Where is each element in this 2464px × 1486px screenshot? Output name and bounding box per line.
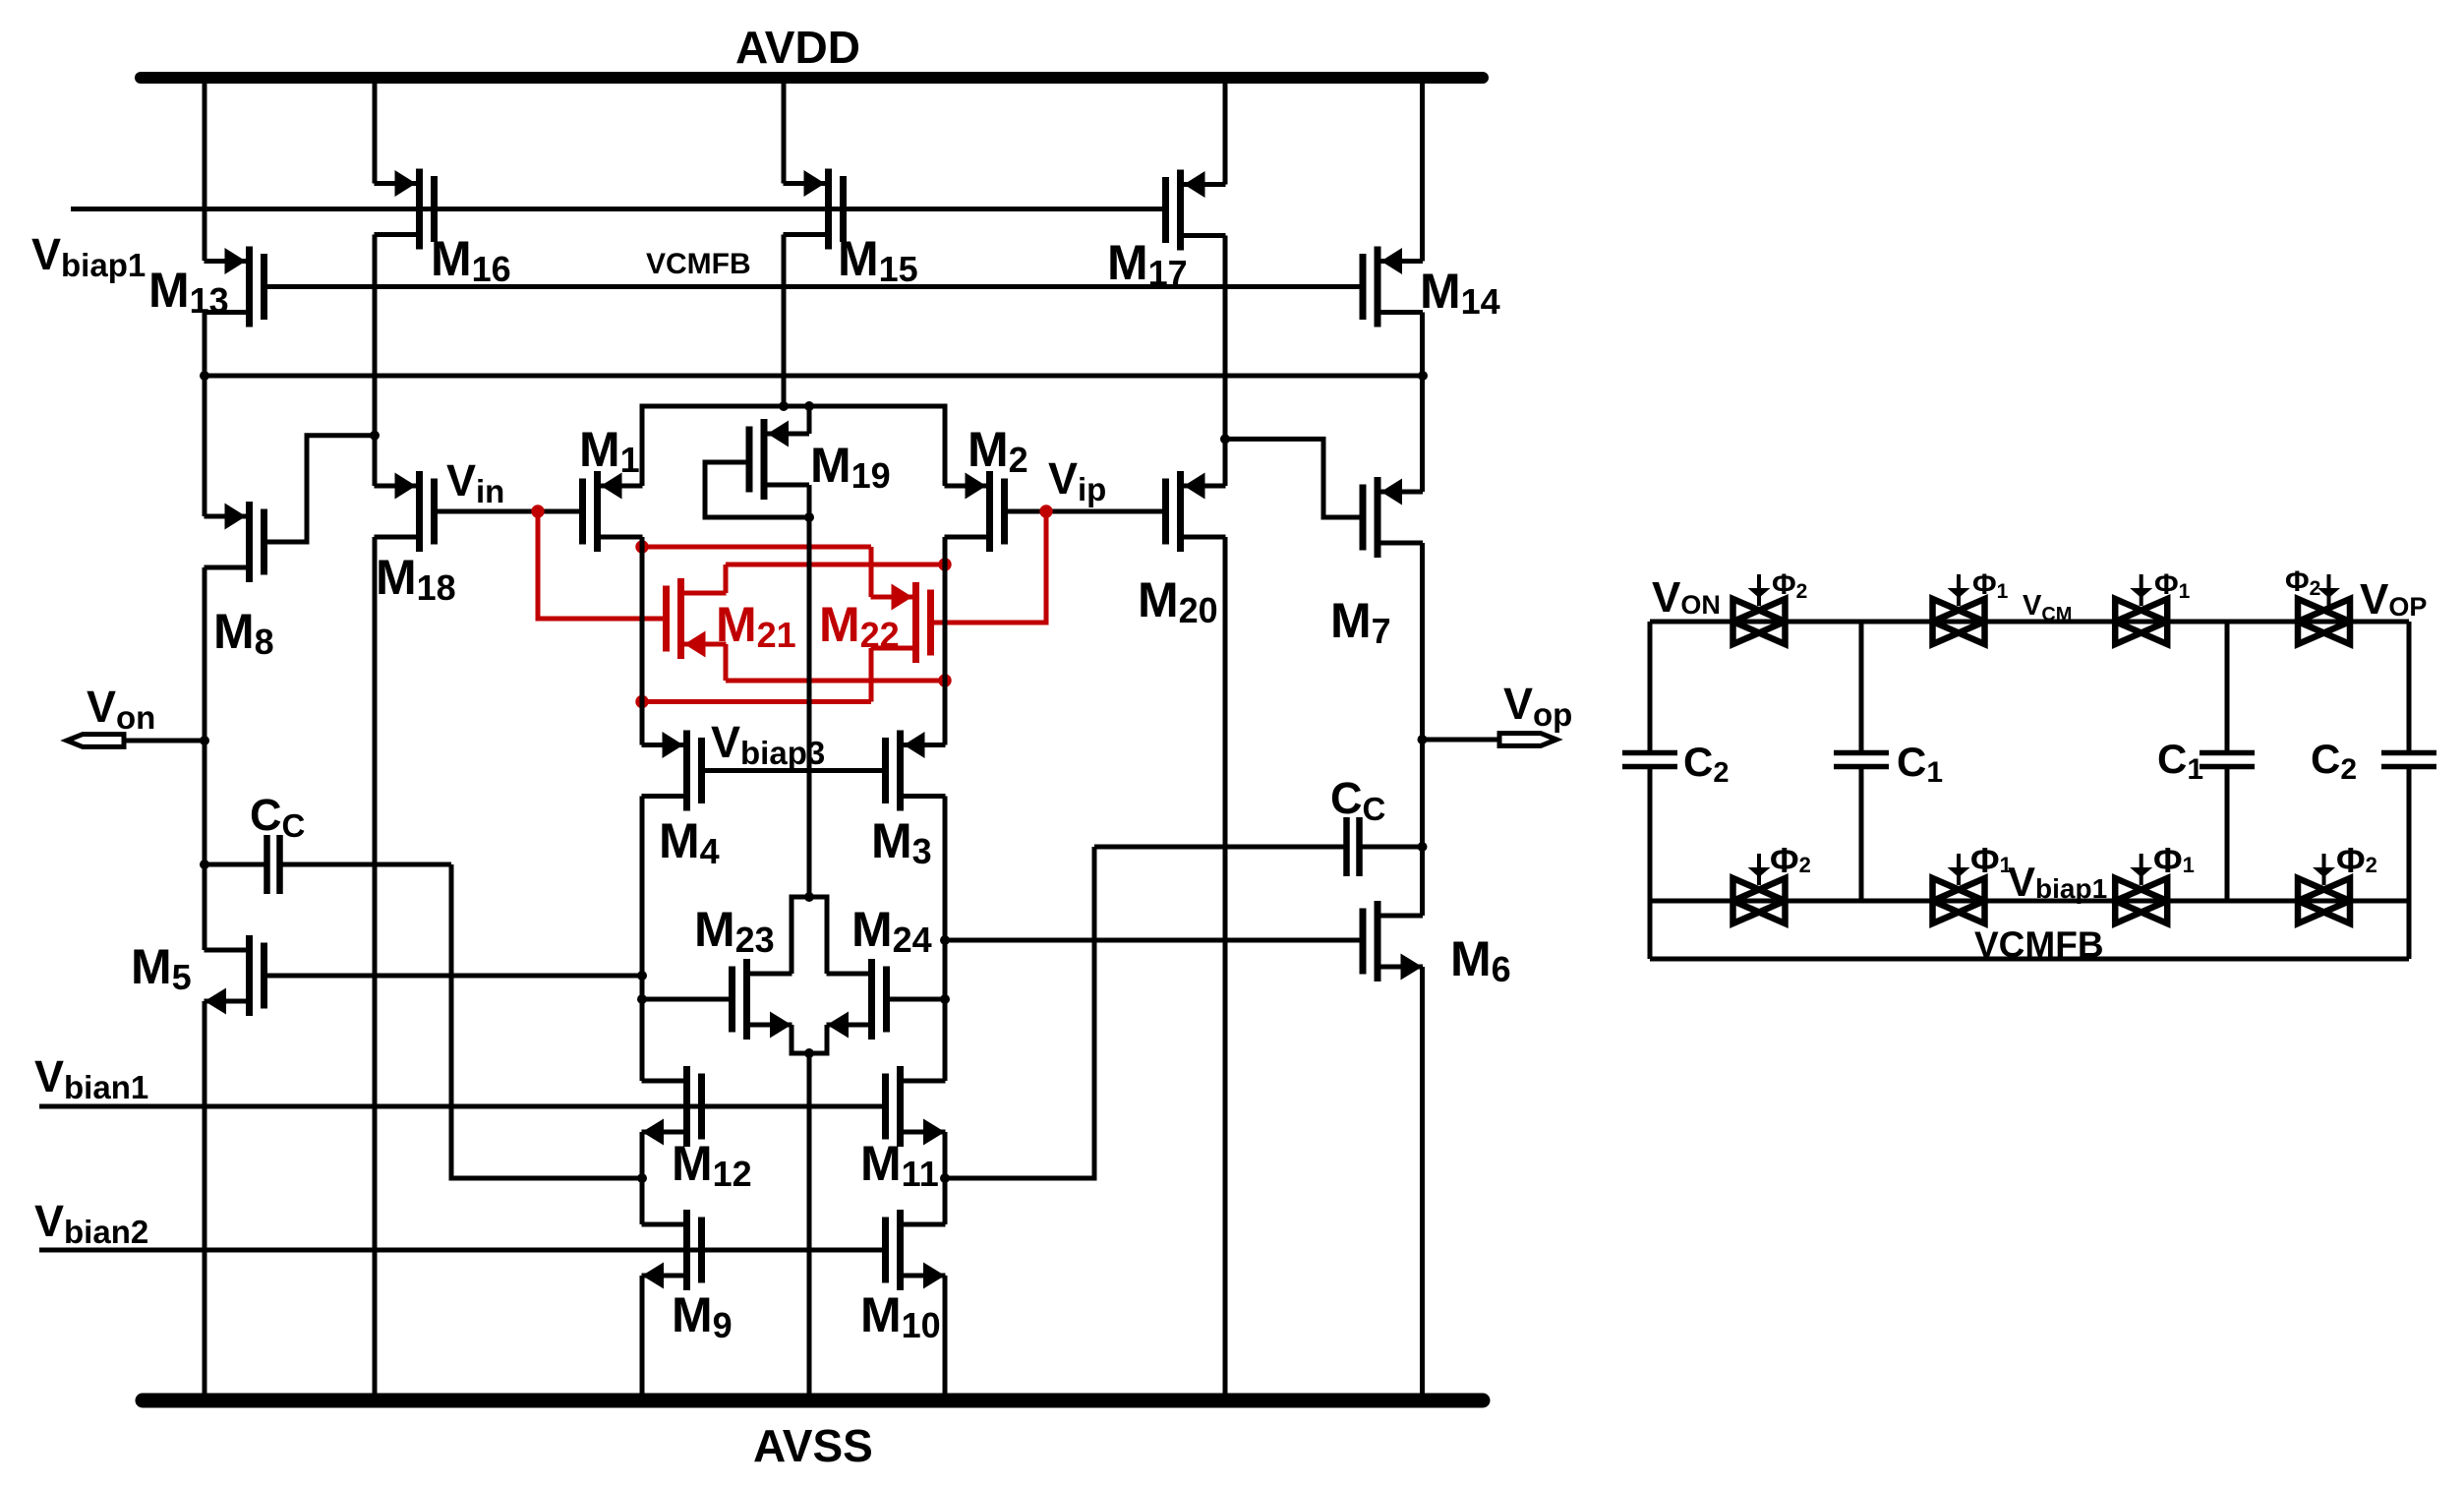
capacitor C1 right plates [2200,753,2255,767]
wire tail to AVSS [807,1053,812,1400]
wire M18 drain to AVSS [373,537,378,1400]
wire CMFB left column lower [1648,769,1653,959]
label phi2 S5 [1770,840,1811,880]
wire first-stage top rail [642,406,945,486]
node V (Von output) [200,736,209,745]
label M15 [838,231,918,289]
transistor M17 [1166,170,1226,251]
label Vbian2 [34,1196,148,1250]
node G (M19 drain / Vbiap3 column) [804,512,814,522]
switch S6 phi1 (bottom) [1933,854,1985,923]
label Cc right [1330,773,1385,827]
transistor M5 [205,935,264,1016]
label M23 [694,902,775,960]
node D (M17 drain / M7 gate / M20 source) [1220,434,1230,444]
wire red M21-source cross line [726,679,945,684]
label C1 left [1897,739,1943,789]
node N (Vbiap3 to M23/M24 drains) [804,892,814,902]
label VON [1652,573,1721,622]
node R (M5 gate tap) [637,971,647,981]
wire AVDD to M14 source [1420,78,1425,262]
label AVSS [753,1420,873,1471]
wire M23 gate line [642,997,733,1002]
label C2 left [1683,739,1729,789]
label Vbiap1 [31,229,146,283]
wire CMFB C1-right column lower [2225,769,2230,901]
wire M12 source to M9 drain [640,1132,645,1224]
wire M1 drain to M4 source [640,537,645,745]
label phi1 S7 [2153,840,2195,880]
label Vin [446,455,504,509]
wire M5 gate line [264,974,643,979]
wire bias rail y382 [205,374,1423,379]
wire M2 drain to M3 source [943,537,948,745]
wire CMFB C1-left column upper [1859,622,1864,750]
transistor M20 [1166,471,1226,552]
node A (M13 drain / bias rail left) [200,371,209,381]
transistor M23 [733,959,792,1040]
power rail AVDD [141,72,1483,84]
wire M19 source stub [807,406,812,434]
wire M19 gate-drain loop [705,462,809,517]
label phi2 S8 [2336,840,2377,880]
wire AVDD to M13 source [203,78,207,261]
capacitor Cc right [1094,817,1423,876]
wire AVDD to M17 source [1223,78,1228,185]
svg-text:VCMFB: VCMFB [1974,924,2104,965]
transistor M13 [205,247,264,327]
switch S1 phi2 (top) [1733,574,1786,644]
transistor M19 [749,419,809,500]
label Von [87,682,155,736]
label VOP [2360,575,2427,624]
switch S3 phi1 (top) [2115,574,2167,644]
wire red M22 drain stub [869,648,874,702]
node F (M19 source on rail) [804,401,814,411]
transistor M14 [1363,247,1423,327]
wire CMFB top row [1650,620,2409,624]
label M2 [968,422,1028,480]
label M7 [1330,593,1391,651]
svg-text:AVDD: AVDD [735,22,860,73]
transistor M3 [886,731,946,811]
node E (M15 drain on rail) [779,401,789,411]
wire M14 drain to node B [1420,313,1425,377]
transistor M1 [583,471,643,552]
label M17 [1107,235,1188,293]
transistor M12 [642,1066,702,1147]
label AVDD [735,22,860,73]
label M10 [860,1287,941,1345]
label phi1 S6 [1970,840,2012,880]
transistor M11 [886,1066,946,1147]
transistor M16 [375,169,435,250]
label M19 [810,438,891,496]
label phi2 S1 [1772,568,1807,603]
wire VCMFB gate line (M13 M14 gates) [264,284,1363,289]
wire Cc right return [945,847,1094,1178]
label phi2 S4 [2285,565,2320,600]
label phi1 S2 [1972,568,2009,603]
label C2 right [2311,736,2357,786]
wire M23/M24 drain hat [792,897,827,974]
wire M4-M3 gate line [702,768,886,773]
node W (Vop output) [1418,735,1428,744]
wire M23/M24 source tail [792,1025,827,1053]
label M4 [659,813,720,871]
label M5 [131,939,192,997]
wire red M22 gate from Vip [931,511,1047,623]
label M6 [1450,931,1511,989]
wire M10 source to AVSS [943,1276,948,1400]
label M1 [579,422,640,480]
label Vop [1503,679,1572,733]
wire M17 drain to M20 source [1223,236,1228,487]
node H red (left branch tap upper) [635,540,648,553]
capacitor Cc left [205,835,451,894]
transistor M21 (red) [667,578,727,659]
wire Vbiap3 column [807,517,812,897]
transistor M7 [1363,477,1423,558]
wire M19 drain link [807,485,812,517]
wire M7 gate loop [1225,439,1363,517]
node P (M24 gate tap) [940,994,950,1004]
wire M6 source to AVSS [1420,967,1425,1400]
wire M4 drain to M12 drain [640,797,645,1082]
wire Von stub [124,739,205,743]
capacitor C2 right plates [2381,753,2436,767]
transistor M22 (red) [871,582,931,663]
wire M15 drain to first-stage rail [782,235,787,407]
label VCMFB (SC network) [1974,924,2104,965]
capacitor C2 left plates [1622,753,1677,767]
label Vbiap3 [711,717,825,771]
capacitor C1 left plates [1834,753,1889,767]
wire M13 drain to node A [203,313,207,377]
switch S2 phi1 (top) [1933,574,1985,644]
node L red (Vin tap) [531,505,544,517]
wire red M22 source stub [869,547,874,597]
switch S4 phi2 (top) [2298,574,2350,644]
transistor M24 [827,959,887,1040]
wire node A to M8 source [203,376,207,516]
node U (Cc right return tap) [940,1173,950,1183]
wire M16 drain to M18 source [373,235,378,487]
wire CMFB right column lower [2407,769,2412,959]
transistor M9 [642,1210,702,1290]
label phi1 S3 [2154,568,2191,603]
node J red (right branch tap lower) [938,674,951,686]
wire AVDD to M15 source [782,78,787,184]
label M12 [672,1136,752,1194]
transistor M15 [784,169,844,250]
node M red (Vip tap) [1039,505,1052,517]
label M21 [716,597,796,655]
wire CMFB right column upper [2407,622,2412,750]
label Vbiap1 (SC network) [2008,859,2107,905]
node Q (tail node) [804,1048,814,1058]
switch S5 phi2 (bottom) [1733,854,1786,923]
wire red M22-source cross line [642,545,871,550]
wire CMFB left column upper [1648,622,1653,750]
wire M3 drain to M11 drain [943,797,948,1082]
transistor M6 [1363,901,1423,981]
node C (M16 drain / M8 gate / M18 source) [370,431,380,441]
wire M5 source to AVSS [203,1001,207,1400]
node X (Cc left top tap) [200,860,209,869]
switch S7 phi1 (bottom) [2115,854,2167,923]
node K red (left branch tap lower) [635,695,648,708]
switch S8 phi2 (bottom) [2298,854,2350,923]
transistor M2 [945,471,1005,552]
transistor M4 [642,731,702,811]
label M24 [851,902,932,960]
label Cc left [250,790,305,844]
node S (M6 gate tap) [940,935,950,945]
label M18 [376,550,456,608]
wire CMFB bottom switch row [1650,899,2409,904]
wire M8 gate loop [264,436,376,542]
node T (Cc left return tap) [637,1173,647,1183]
svg-text:AVSS: AVSS [753,1420,873,1471]
wire red M22-drain cross line [642,699,871,704]
wire M11 source to M10 drain [943,1132,948,1224]
wire Vbian1 line [39,1104,889,1109]
transistor M10 [886,1210,946,1290]
label VCMFB [646,248,751,280]
node Y (Cc right top tap) [1418,842,1428,852]
wire CMFB C1-right column upper [2225,622,2230,750]
terminal Vop arrow [1499,734,1556,746]
wire red M21 gate from Vin [538,511,667,619]
label M13 [148,263,229,321]
wire Vbian2 line [39,1248,889,1253]
wire CMFB C1-left column lower [1859,769,1864,901]
label Vip [1048,453,1106,507]
wire VCMFB bottom line [1650,957,2409,962]
wire Vop stub [1423,738,1502,743]
label M3 [871,813,932,871]
wire M6 gate line [945,938,1363,943]
label Vbian1 [34,1051,148,1105]
wire red M21-drain cross line [726,563,945,567]
wire red M21 drain stub [724,565,729,593]
label M9 [672,1287,733,1345]
label M11 [860,1136,939,1194]
svg-text:VCMFB: VCMFB [646,248,751,280]
power rail AVSS [143,1394,1483,1408]
label M20 [1138,572,1218,630]
wire red M21 source stub [724,644,729,681]
transistor M18 [375,471,435,552]
wire AVDD to M16 source [373,78,378,184]
wire Vbiap1 gate line (M16 M15 M17 gates) [71,207,1165,211]
wire Vip line [1005,509,1166,514]
node O (M23 gate tap) [637,994,647,1004]
wire Vin line [435,509,583,514]
wire M9 source to AVSS [640,1276,645,1400]
label M14 [1420,264,1500,322]
wire Cc left return [451,864,642,1178]
label M8 [213,604,274,662]
node B (M14 drain / bias rail right) [1418,371,1428,381]
wire node B to M7 source [1420,376,1425,492]
node I red (right branch tap upper) [938,558,951,570]
wire M20 drain to AVSS [1223,537,1228,1400]
label M22 [819,597,900,655]
wire M24 gate line [887,997,946,1002]
label C1 right [2157,736,2203,786]
wire M7 drain to M6 drain [1420,543,1425,916]
transistor M8 [205,502,264,582]
label M16 [431,231,511,289]
label VCM [2023,590,2072,625]
wire M8 drain to M5 drain [203,567,207,950]
terminal Von arrow [67,735,124,747]
